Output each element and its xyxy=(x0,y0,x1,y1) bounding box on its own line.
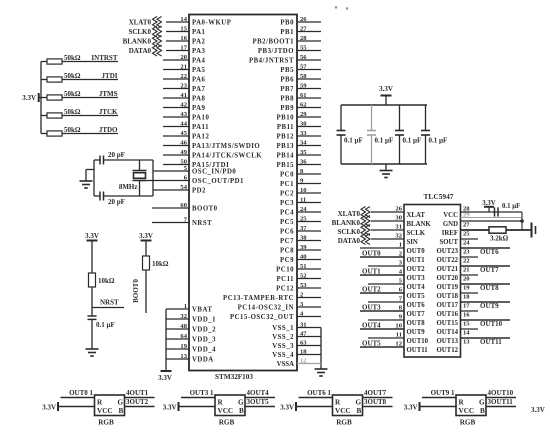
pin 20 PA4 xyxy=(163,59,189,61)
ground at cap bank xyxy=(385,164,387,171)
svg-text:31: 31 xyxy=(300,321,307,328)
capacitor C7 0.1uF bypass xyxy=(371,105,373,131)
svg-text:PC2: PC2 xyxy=(280,191,294,198)
pin 3 PC14-OSC32_IN xyxy=(297,306,321,308)
wire cap bank bottom rail xyxy=(341,163,427,165)
svg-text:59: 59 xyxy=(300,82,307,89)
pin 52 PC11 xyxy=(297,278,321,280)
wire BOOT0 stub xyxy=(145,270,147,313)
svg-text:20 pF: 20 pF xyxy=(108,198,125,206)
power 3.3V at VDD bus xyxy=(161,370,172,372)
pin 44 PA11 xyxy=(163,126,189,128)
svg-text:VDD_1: VDD_1 xyxy=(192,317,216,324)
svg-text:VBAT: VBAT xyxy=(192,307,212,314)
svg-text:XLAT: XLAT xyxy=(407,212,426,219)
svg-text:PC1: PC1 xyxy=(280,181,294,188)
pin 51 PC10 xyxy=(297,268,321,270)
svg-text:OUT4: OUT4 xyxy=(362,322,381,330)
svg-text:VDDA: VDDA xyxy=(192,357,214,364)
svg-text:56: 56 xyxy=(300,54,307,61)
svg-text:OUT1: OUT1 xyxy=(407,257,426,264)
svg-text:13: 13 xyxy=(180,353,187,360)
svg-text:PB8: PB8 xyxy=(280,96,294,103)
svg-text:PA6: PA6 xyxy=(192,77,206,84)
svg-text:8MHz: 8MHz xyxy=(119,183,138,191)
svg-text:3.3V: 3.3V xyxy=(404,404,418,412)
svg-text:PB10: PB10 xyxy=(277,115,295,122)
svg-text:1: 1 xyxy=(399,242,402,249)
node VSS bus xyxy=(320,328,322,370)
node VBAT/VDD bus xyxy=(165,309,167,371)
wire NRST chain top xyxy=(91,241,93,274)
wire TLC VCC to ground drop xyxy=(521,212,523,230)
svg-text:SOUT: SOUT xyxy=(439,239,458,246)
svg-text:20: 20 xyxy=(180,54,187,61)
svg-text:3OUT8: 3OUT8 xyxy=(364,398,387,406)
svg-text:SCLK0: SCLK0 xyxy=(128,28,151,36)
svg-text:PA2: PA2 xyxy=(192,39,206,46)
pin 5 OSC_IN/PD0 xyxy=(153,170,189,172)
svg-text:OUT6: OUT6 xyxy=(407,302,426,309)
svg-text:OUT19: OUT19 xyxy=(436,284,458,291)
pin 53 PC12 xyxy=(297,287,321,289)
svg-text:OUT16: OUT16 xyxy=(436,311,458,318)
pin 18 TLC right xyxy=(461,292,479,294)
svg-text:51: 51 xyxy=(300,263,307,270)
svg-text:32: 32 xyxy=(180,313,187,320)
svg-text:BOOT0: BOOT0 xyxy=(132,279,140,303)
svg-text:23: 23 xyxy=(463,248,470,255)
svg-text:B: B xyxy=(239,407,244,415)
node junction dot xyxy=(520,219,524,223)
svg-text:3.3V: 3.3V xyxy=(139,232,153,240)
svg-text:3.3V: 3.3V xyxy=(280,404,294,412)
pin 17 PA3 xyxy=(166,50,189,52)
svg-text:44: 44 xyxy=(180,120,187,127)
pin 4 G output OUT7 xyxy=(363,397,393,399)
svg-text:50kΩ: 50kΩ xyxy=(64,126,81,134)
pin 23 PA7 xyxy=(163,88,189,90)
svg-text:20: 20 xyxy=(463,275,470,282)
svg-text:VSS_3: VSS_3 xyxy=(272,343,294,350)
svg-text:14: 14 xyxy=(180,16,187,23)
svg-text:GND: GND xyxy=(443,221,458,228)
pin 9 PC1 xyxy=(297,183,321,185)
pin 24 TLC right xyxy=(461,238,479,240)
svg-text:PA7: PA7 xyxy=(192,86,206,93)
svg-text:OUT7: OUT7 xyxy=(480,266,499,274)
pin 30 PB11 xyxy=(297,126,321,128)
pin 23 TLC right xyxy=(461,247,511,249)
svg-text:20 pF: 20 pF xyxy=(108,151,125,159)
svg-text:43: 43 xyxy=(180,111,187,118)
pin 49 PA14/JTCK/SWCLK xyxy=(163,154,189,156)
svg-text:VDD_2: VDD_2 xyxy=(192,327,216,334)
wire TLC left stub xyxy=(368,319,404,321)
svg-text:0.1 µF: 0.1 µF xyxy=(502,203,520,210)
svg-text:RGB: RGB xyxy=(98,419,114,427)
svg-text:OUT3: OUT3 xyxy=(407,275,426,282)
svg-text:PC9: PC9 xyxy=(280,257,294,264)
svg-text:PA5: PA5 xyxy=(192,67,206,74)
svg-text:B: B xyxy=(119,407,124,415)
svg-text:16: 16 xyxy=(463,311,470,318)
svg-text:PC12: PC12 xyxy=(276,286,294,293)
svg-text:PB7: PB7 xyxy=(280,86,294,93)
svg-text:IREF: IREF xyxy=(442,230,458,237)
svg-text:22: 22 xyxy=(463,257,470,264)
svg-text:11: 11 xyxy=(300,196,306,203)
svg-text:19: 19 xyxy=(463,284,470,291)
svg-text:61: 61 xyxy=(300,92,307,99)
svg-text:50kΩ: 50kΩ xyxy=(64,108,81,116)
svg-text:BLANK0: BLANK0 xyxy=(332,219,361,227)
pin 55 PB3/JTDO xyxy=(297,50,321,52)
crystal Y1 8MHz xyxy=(139,160,141,171)
pin 31 VSS_1 xyxy=(297,327,321,329)
svg-text:54: 54 xyxy=(180,184,187,191)
svg-text:24: 24 xyxy=(300,206,307,213)
svg-text:OUT23: OUT23 xyxy=(436,248,458,255)
svg-text:29: 29 xyxy=(300,111,307,118)
pin 64 VDD_3 xyxy=(166,338,189,340)
svg-text:PD2: PD2 xyxy=(192,188,206,195)
svg-text:TLC5947: TLC5947 xyxy=(424,192,454,201)
pin 13 TLC right xyxy=(461,337,511,339)
svg-text:37: 37 xyxy=(300,225,307,232)
svg-text:PB13: PB13 xyxy=(277,143,295,150)
svg-text:VDD_3: VDD_3 xyxy=(192,337,216,344)
svg-text:23: 23 xyxy=(180,82,187,89)
svg-text:10kΩ: 10kΩ xyxy=(152,260,169,268)
svg-text:R: R xyxy=(335,399,341,407)
ground at IREF bar style xyxy=(531,223,533,238)
svg-text:G: G xyxy=(238,399,244,407)
svg-text:13: 13 xyxy=(463,338,470,345)
svg-text:NRST: NRST xyxy=(100,299,119,307)
pin 16 PA2 xyxy=(166,40,189,42)
svg-text:PA13/JTMS/SWDIO: PA13/JTMS/SWDIO xyxy=(192,143,260,150)
svg-text:50kΩ: 50kΩ xyxy=(64,54,81,62)
pin 3 B output OUT2 xyxy=(125,406,155,408)
svg-text:55: 55 xyxy=(300,44,307,51)
svg-text:50kΩ: 50kΩ xyxy=(64,72,81,80)
pin 32 VDD_1 xyxy=(166,318,189,320)
capacitor C10 0.1uF TLC bypass xyxy=(494,207,496,216)
svg-text:VSS_4: VSS_4 xyxy=(272,352,294,359)
svg-text:45: 45 xyxy=(180,130,187,137)
pin 48 VDD_2 xyxy=(166,328,189,330)
svg-text:0.1 µF: 0.1 µF xyxy=(403,137,422,145)
svg-text:OUT22: OUT22 xyxy=(436,257,458,264)
svg-text:BOOT0: BOOT0 xyxy=(192,206,218,213)
pin 46 PA13/JTMS/SWDIO xyxy=(163,145,189,147)
svg-text:DATA0: DATA0 xyxy=(129,47,152,55)
svg-text:OUT5: OUT5 xyxy=(407,293,426,300)
pin 1 wire xyxy=(360,247,404,249)
pin 25 PC5 xyxy=(297,221,321,223)
pin 11 PC3 xyxy=(297,202,321,204)
svg-text:PC10: PC10 xyxy=(276,267,294,274)
pin 42 PA9 xyxy=(163,107,189,109)
svg-text:OUT2: OUT2 xyxy=(407,266,426,273)
pin 1 R input OUT9 xyxy=(422,397,456,399)
pin 27 PB1 xyxy=(297,31,321,33)
pin 6 OSC_OUT/PD1 xyxy=(140,180,190,182)
svg-text:B: B xyxy=(357,407,362,415)
pin 12 VSSA xyxy=(297,363,321,365)
pin 56 PB4/JNTRST xyxy=(297,59,321,61)
pin 39 PC8 xyxy=(297,249,321,251)
pin 1 R input OUT6 xyxy=(299,397,333,399)
svg-text:BLANK: BLANK xyxy=(407,221,432,228)
svg-text:OUT11: OUT11 xyxy=(480,338,502,346)
pin 16 TLC right xyxy=(461,310,479,312)
node OUT0 wire xyxy=(360,256,404,258)
svg-text:29: 29 xyxy=(463,212,470,219)
pin 36 PB15 xyxy=(297,164,321,166)
svg-text:VCC: VCC xyxy=(459,407,475,415)
wire TLC left stub xyxy=(368,301,404,303)
svg-text:47: 47 xyxy=(300,330,307,337)
pin 3 B output OUT8 xyxy=(363,406,393,408)
pin 4 G output OUT10 xyxy=(486,397,516,399)
svg-text:36: 36 xyxy=(300,158,307,165)
svg-text:PA3: PA3 xyxy=(192,48,206,55)
svg-text:1: 1 xyxy=(184,303,187,310)
svg-text:10: 10 xyxy=(300,187,307,194)
svg-text:3.3V: 3.3V xyxy=(85,232,99,240)
svg-text:OUT9 1: OUT9 1 xyxy=(431,389,455,397)
resistor R1 50k INTRST xyxy=(41,61,47,63)
pin 29 TLC right gray xyxy=(461,217,523,219)
svg-text:PC7: PC7 xyxy=(280,238,294,245)
svg-text:OUT0 1: OUT0 1 xyxy=(69,389,93,397)
svg-text:21: 21 xyxy=(463,266,470,273)
svg-text:27: 27 xyxy=(300,25,307,32)
svg-text:VCC: VCC xyxy=(335,407,351,415)
svg-text:33: 33 xyxy=(300,130,307,137)
svg-text:OUT12: OUT12 xyxy=(436,347,458,354)
svg-text:SCLK: SCLK xyxy=(407,230,426,237)
pin 29 PB10 xyxy=(297,116,321,118)
svg-text:OUT5: OUT5 xyxy=(362,340,381,348)
svg-text:OUT21: OUT21 xyxy=(436,266,458,273)
pin 62 PB9 xyxy=(297,107,321,109)
pin 14 TLC right xyxy=(461,328,479,330)
ground at VSS bus xyxy=(315,368,328,370)
svg-text:OUT2: OUT2 xyxy=(362,286,381,294)
svg-text:OUT20: OUT20 xyxy=(436,275,458,282)
svg-text:PA10: PA10 xyxy=(192,115,209,122)
svg-text:VSS_2: VSS_2 xyxy=(272,334,294,341)
svg-text:STM32F103: STM32F103 xyxy=(215,373,253,381)
svg-text:62: 62 xyxy=(300,101,307,108)
pin 2 PC13-TAMPER-RTC xyxy=(297,297,321,299)
pin 34 PB13 xyxy=(297,145,321,147)
node OUT4 wire xyxy=(360,328,404,330)
svg-text:OUT14: OUT14 xyxy=(436,329,458,336)
svg-text:OUT3: OUT3 xyxy=(362,304,381,312)
svg-text:RGB: RGB xyxy=(460,419,476,427)
svg-text:3.3V: 3.3V xyxy=(22,94,36,102)
wire crystal left rail xyxy=(93,160,95,196)
resistor R4 50k JTCK xyxy=(41,115,47,117)
capacitor C5 0.1uF NRST xyxy=(88,315,97,317)
svg-text:OUT9: OUT9 xyxy=(407,329,426,336)
resistor R7 10k BOOT0 xyxy=(143,256,150,270)
pin 63 VSS_3 xyxy=(297,345,321,347)
svg-text:PA1: PA1 xyxy=(192,29,206,36)
pin 59 PB7 xyxy=(297,88,321,90)
wire crystal top rail xyxy=(94,159,100,161)
svg-text:PC14-OSC32_IN: PC14-OSC32_IN xyxy=(238,305,294,312)
svg-text:VCC: VCC xyxy=(443,212,458,219)
svg-text:PA4: PA4 xyxy=(192,58,206,65)
capacitor C9 0.1uF bypass xyxy=(425,105,427,131)
svg-text:25: 25 xyxy=(300,215,307,222)
svg-text:15: 15 xyxy=(463,320,470,327)
svg-text:0.1 µF: 0.1 µF xyxy=(344,137,363,145)
pin 1 VBAT xyxy=(166,308,189,310)
svg-text:JTDO: JTDO xyxy=(99,126,118,134)
svg-text:PA12: PA12 xyxy=(192,134,209,141)
svg-text:48: 48 xyxy=(180,323,187,330)
pin 28 TLC right xyxy=(461,211,523,213)
svg-text:18: 18 xyxy=(300,348,307,355)
svg-text:SCLK0: SCLK0 xyxy=(337,228,360,236)
svg-text:PC13-TAMPER-RTC: PC13-TAMPER-RTC xyxy=(223,295,294,302)
resistor R5 50k JTDO xyxy=(41,133,47,135)
svg-text:49: 49 xyxy=(180,149,187,156)
pin 3 B output OUT11 xyxy=(486,406,516,408)
svg-text:3.3V: 3.3V xyxy=(163,404,177,412)
svg-text:OUT0: OUT0 xyxy=(362,250,381,258)
svg-text:14: 14 xyxy=(463,329,470,336)
resistor R3 50k JTMS xyxy=(41,97,47,99)
svg-text:VDD_4: VDD_4 xyxy=(192,347,216,354)
capacitor C2 20pF bottom xyxy=(99,192,101,201)
svg-text:40: 40 xyxy=(300,253,307,260)
svg-text:G: G xyxy=(479,399,485,407)
svg-text:OUT10: OUT10 xyxy=(407,338,429,345)
svg-text:PC3: PC3 xyxy=(280,200,294,207)
svg-text:PA9: PA9 xyxy=(192,105,206,112)
wire BOOT0 chain top xyxy=(145,241,147,257)
svg-text:XLAT0: XLAT0 xyxy=(129,19,152,27)
capacitor C6 0.1uF bypass xyxy=(340,105,342,131)
svg-text:OUT9: OUT9 xyxy=(480,302,499,310)
svg-text:PB2/BOOT1: PB2/BOOT1 xyxy=(252,39,294,46)
svg-text:16: 16 xyxy=(180,35,187,42)
RGB LED D3 body xyxy=(333,395,363,416)
resistor R8 3.2k IREF xyxy=(489,227,506,233)
RGB LED D2 body xyxy=(215,395,245,416)
svg-text:OUT8: OUT8 xyxy=(407,320,426,327)
svg-text:DATA0: DATA0 xyxy=(338,237,361,245)
pin 58 PB6 xyxy=(297,78,321,80)
svg-text:R: R xyxy=(218,399,224,407)
svg-text:4OUT7: 4OUT7 xyxy=(364,389,387,397)
pin 37 PC6 xyxy=(297,230,321,232)
svg-text:26: 26 xyxy=(395,206,402,213)
svg-text:3.3V: 3.3V xyxy=(158,374,172,382)
svg-text:0.1 µF: 0.1 µF xyxy=(375,137,394,145)
node OUT3 wire xyxy=(360,310,404,312)
svg-text:18: 18 xyxy=(463,293,470,300)
svg-text:17: 17 xyxy=(463,302,470,309)
ground at NRST chain xyxy=(86,348,99,350)
svg-text:3.2kΩ: 3.2kΩ xyxy=(490,235,509,243)
pin 41 PA8 xyxy=(163,97,189,99)
svg-text:0.1 µF: 0.1 µF xyxy=(429,137,448,145)
pin 21 TLC right xyxy=(461,265,511,267)
svg-text:3OUT2: 3OUT2 xyxy=(126,398,149,406)
pin 26 PB0 xyxy=(297,21,321,23)
pin 40 PC9 xyxy=(297,259,321,261)
op-amp U1 MCU STM32F103 body xyxy=(189,15,297,371)
pin 4 PC15-OSC32_OUT xyxy=(297,316,321,318)
svg-text:27: 27 xyxy=(463,221,470,228)
svg-text:OUT11: OUT11 xyxy=(407,347,429,354)
svg-text:PB6: PB6 xyxy=(280,77,294,84)
pin 3 B output OUT5 xyxy=(245,406,275,408)
svg-text:28: 28 xyxy=(463,206,470,213)
capacitor C1 20pF top xyxy=(99,156,101,165)
svg-text:22: 22 xyxy=(180,73,187,80)
svg-text:OUT3 1: OUT3 1 xyxy=(190,389,214,397)
svg-text:PB5: PB5 xyxy=(280,67,294,74)
svg-text:XLAT0: XLAT0 xyxy=(338,210,361,218)
pin 28 PB2/BOOT1 xyxy=(297,40,321,42)
pin 1 R input OUT0 xyxy=(61,397,95,399)
svg-text:JTMS: JTMS xyxy=(99,90,118,98)
capacitor C8 0.1uF bypass xyxy=(399,105,401,131)
svg-text:PB14: PB14 xyxy=(277,153,295,160)
svg-text:15: 15 xyxy=(180,25,187,32)
svg-text:24: 24 xyxy=(463,239,470,246)
svg-text:26: 26 xyxy=(300,16,307,23)
svg-text:PC6: PC6 xyxy=(280,229,294,236)
pin 21 PA5 xyxy=(163,69,189,71)
svg-text:19: 19 xyxy=(180,343,187,350)
svg-text:OUT8: OUT8 xyxy=(480,284,499,292)
svg-text:4OUT4: 4OUT4 xyxy=(247,389,270,397)
svg-text:31: 31 xyxy=(395,224,402,231)
svg-text:OUT17: OUT17 xyxy=(436,302,458,309)
pin 20 TLC right xyxy=(461,274,479,276)
node OUT1 wire xyxy=(360,274,404,276)
svg-text:OUT6 1: OUT6 1 xyxy=(307,389,331,397)
wire NRST node xyxy=(91,287,93,316)
pin 8 PC0 xyxy=(297,173,321,175)
pin 10 PC2 xyxy=(297,192,321,194)
svg-text:PA0-WKUP: PA0-WKUP xyxy=(192,20,231,27)
svg-text:OUT15: OUT15 xyxy=(436,320,458,327)
svg-text:OSC_OUT/PD1: OSC_OUT/PD1 xyxy=(192,178,244,185)
svg-text:RGB: RGB xyxy=(219,419,235,427)
svg-text:3.3V: 3.3V xyxy=(379,85,393,93)
svg-text:4OUT10: 4OUT10 xyxy=(488,389,514,397)
svg-text:3OUT11: 3OUT11 xyxy=(488,398,514,406)
wire cap bank top rail xyxy=(341,104,427,106)
svg-text:58: 58 xyxy=(300,73,307,80)
svg-text:RGB: RGB xyxy=(336,419,352,427)
svg-text:60: 60 xyxy=(180,202,187,209)
svg-text:38: 38 xyxy=(300,234,307,241)
pin 60 BOOT0 xyxy=(152,207,189,209)
op-amp U2 LED driver TLC5947 body xyxy=(404,205,461,358)
